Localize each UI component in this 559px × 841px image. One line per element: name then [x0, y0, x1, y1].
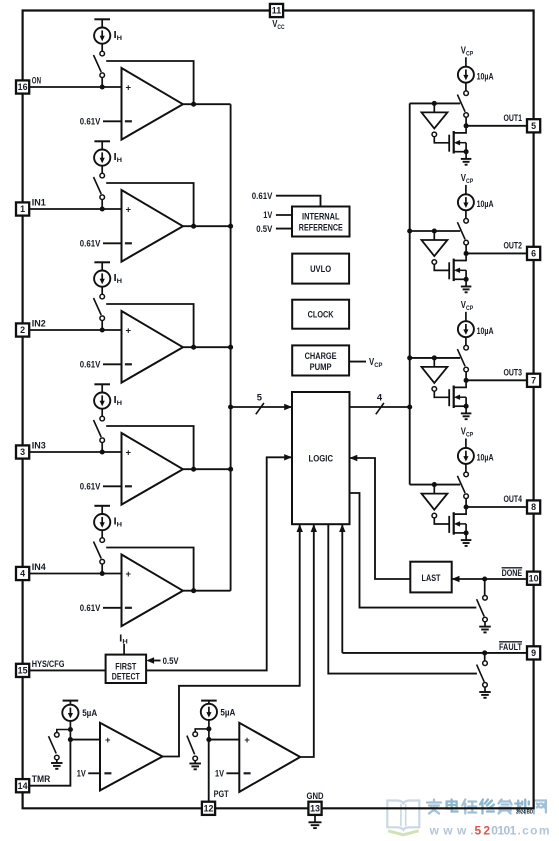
svg-text:14: 14: [18, 781, 28, 791]
ground symbol FAULT switch: [479, 691, 491, 693]
watermark logo book icon: [387, 801, 419, 830]
wire node to PGT comparator + input: [209, 739, 239, 741]
svg-text:OUT3: OUT3: [504, 368, 523, 378]
wire 1V to PGT - input: [226, 772, 239, 774]
svg-text:9: 9: [531, 648, 536, 658]
current source I_H for IN3: [94, 393, 110, 409]
svg-text:1V: 1V: [263, 210, 273, 220]
PGT reset switch: [193, 732, 198, 737]
MOSFET M7 bulk arrow: [456, 396, 467, 398]
svg-text:5µA: 5µA: [82, 708, 97, 718]
ground symbol DONE switch: [479, 626, 491, 628]
source junction dot OUT4: [464, 530, 469, 535]
svg-text:H: H: [117, 278, 122, 285]
hysteresis switch for IN3: [100, 416, 105, 421]
svg-text:6: 6: [531, 249, 536, 259]
svg-text:ON: ON: [32, 75, 41, 85]
junction dot control OUT3: [432, 355, 437, 360]
svg-text:2924 BD: 2924 BD: [516, 810, 533, 816]
comparator IN4 - input symbol: [125, 607, 132, 609]
inverter gate driver for OUT4: [422, 494, 448, 510]
wire 0.61V to - input for IN2: [103, 363, 122, 365]
wire FAULT switch to ground: [484, 687, 486, 692]
MOSFET M8 source stub: [454, 532, 466, 534]
FAULT switch control wire from LOGIC: [328, 524, 477, 673]
comparator IN4 output wire: [183, 590, 231, 592]
bus wire 5 from comparators into LOGIC: [231, 406, 292, 408]
MOSFET M6 drain stub: [454, 253, 466, 260]
watermark chinese characters: [427, 800, 546, 814]
bus junction dot IN3: [228, 467, 233, 472]
wire into inverter OUT4: [433, 485, 435, 494]
comparator ON - input symbol: [125, 120, 132, 122]
inverter output bubble OUT3: [432, 387, 437, 392]
bus junction dot at 5-line tap: [228, 404, 233, 409]
switch for OUT3 driver: [464, 345, 469, 350]
svg-text:+: +: [126, 82, 132, 93]
wire 0.61V to - input for IN3: [103, 485, 122, 487]
current source 10uA for OUT1: [458, 67, 474, 83]
svg-text:+: +: [126, 325, 132, 336]
wire source to node PGT: [208, 720, 210, 740]
feedback wire comparator output to switch for IN3: [106, 426, 193, 469]
block INTERNAL REFERENCE: [292, 207, 350, 237]
block LOGIC: [292, 392, 350, 524]
svg-text:7: 7: [531, 376, 536, 386]
svg-text:LAST: LAST: [422, 573, 441, 583]
svg-text:.com: .com: [518, 824, 550, 838]
bus wire 4 from LOGIC to output drivers: [350, 406, 410, 408]
switch for OUT4 driver: [464, 472, 469, 477]
bus junction dot IN2: [228, 345, 233, 350]
MOSFET M6 source stub: [454, 278, 466, 280]
svg-text:0.61V: 0.61V: [80, 482, 101, 492]
wire current source to switch OUT3: [465, 337, 467, 345]
svg-text:1V: 1V: [77, 769, 87, 779]
wire OUT2 node to pin: [466, 252, 527, 254]
comparator TMR - symbol: [104, 772, 111, 774]
comparator PGT - symbol: [244, 772, 251, 774]
feedback wire comparator output to switch for ON: [106, 61, 193, 104]
TMR reset switch: [55, 733, 60, 738]
pin 1 box: [16, 202, 29, 215]
control wire from logic bus to OUT4 inverter and switch: [410, 484, 461, 486]
svg-text:0.61V: 0.61V: [252, 191, 273, 201]
wire node to TMR comparator + input: [70, 739, 100, 741]
current source I_H for IN4 - supply bar: [94, 505, 110, 507]
control wire from logic bus to OUT3 inverter and switch: [410, 357, 461, 359]
wire IN4 pin to comparator + input: [29, 573, 121, 575]
wire inverter to MOSFET gate OUT2: [434, 264, 449, 270]
current source 5uA PGT: [201, 704, 217, 720]
svg-text:15: 15: [18, 666, 28, 676]
comparator IN3 output wire: [183, 468, 231, 470]
svg-text:0.61V: 0.61V: [80, 239, 101, 249]
svg-text:+: +: [126, 569, 132, 580]
bus dot OUT2 control: [407, 228, 412, 233]
junction dot control OUT1: [432, 101, 437, 106]
bus slash 5: [256, 403, 264, 414]
hysteresis switch for ON: [100, 51, 105, 56]
node dot ON input: [100, 84, 105, 89]
wire 0.5V arrow into FIRST DETECT: [150, 660, 161, 662]
node dot IN4 input: [100, 571, 105, 576]
node dot TMR + input: [68, 737, 73, 742]
control wire from logic bus to OUT1 inverter and switch: [410, 102, 461, 104]
source junction dot OUT3: [464, 404, 469, 409]
MOSFET M5 channel bar: [453, 131, 455, 154]
wire OUT1 node to pin: [466, 125, 527, 127]
source junction dot OUT1: [464, 149, 469, 154]
pin 15 box: [16, 664, 29, 677]
ground symbol OUT4: [461, 539, 472, 541]
inverter gate driver for OUT3: [422, 367, 448, 383]
svg-text:1V: 1V: [215, 769, 225, 779]
svg-text:H: H: [117, 400, 122, 407]
pin 7 box: [527, 374, 540, 387]
MOSFET M5 bulk arrow: [456, 142, 467, 144]
current source I_H for IN2 - supply bar: [94, 261, 110, 263]
current source 10uA for OUT3: [458, 321, 474, 337]
inverter output bubble OUT1: [432, 132, 437, 137]
pin 10 box: [527, 572, 540, 585]
comparator IN4 triangle: [122, 555, 183, 627]
svg-text:CP: CP: [466, 178, 474, 185]
wire into inverter OUT3: [433, 358, 435, 367]
wire switch to output node OUT1: [465, 117, 467, 126]
svg-text:INTERNAL: INTERNAL: [302, 212, 340, 222]
svg-text:+: +: [126, 447, 132, 458]
current source 5uA TMR: [62, 705, 78, 721]
wire current source to switch for IN2: [101, 287, 103, 295]
svg-text:REFERENCE: REFERENCE: [299, 223, 343, 233]
wire into inverter OUT2: [433, 231, 435, 240]
wire inverter to MOSFET gate OUT3: [434, 391, 449, 397]
wire current source to switch OUT4: [465, 464, 467, 472]
comparator IN2 output node dot: [191, 345, 196, 350]
wire LAST output to LOGIC: [350, 458, 411, 579]
svg-text:CP: CP: [466, 432, 474, 439]
MOSFET M6 bulk arrow: [456, 269, 467, 271]
current source I_H for ON: [94, 27, 110, 43]
feedback wire comparator output to switch for IN2: [106, 304, 193, 347]
node dot PGT upper: [206, 726, 211, 731]
svg-text:+: +: [244, 735, 250, 746]
svg-text:OUT1: OUT1: [504, 113, 523, 123]
MOSFET M8 bulk arrow: [456, 523, 467, 525]
svg-text:H: H: [117, 157, 122, 164]
wire 0.61V to - input for IN1: [103, 242, 122, 244]
current source I_H for ON - supply bar: [94, 18, 110, 20]
svg-text:0.61V: 0.61V: [80, 603, 101, 613]
wire 0.61V to - input for IN4: [103, 607, 122, 609]
wire I_H into FIRST DETECT top: [123, 644, 125, 655]
comparator IN1 output wire: [183, 225, 231, 227]
switch for OUT1 driver: [464, 91, 469, 96]
node dot PGT + input: [206, 737, 211, 742]
node dot TMR upper: [68, 727, 73, 732]
wire TMR switch to ground: [56, 760, 58, 763]
ground symbol OUT2: [461, 286, 472, 288]
control wire from logic bus to OUT2 inverter and switch: [410, 230, 461, 232]
DONE pulldown switch: [483, 596, 488, 601]
comparator TMR triangle: [100, 723, 163, 791]
wire VCP to current source OUT3: [465, 312, 467, 321]
node dot IN1 input: [100, 206, 105, 211]
block CHARGE PUMP: [292, 345, 349, 375]
comparator IN3 - input symbol: [125, 485, 132, 487]
pin 3 box: [16, 445, 29, 458]
wire FAULT to LOGIC bottom: [341, 524, 343, 653]
wire inverter to MOSFET gate OUT4: [434, 518, 449, 524]
pin 12 box: [202, 802, 215, 815]
svg-text:TMR: TMR: [32, 774, 51, 784]
bus dot OUT3 control: [407, 355, 412, 360]
comparator ON output wire: [183, 103, 231, 105]
wire VCP to current source OUT4: [465, 439, 467, 448]
wire DONE pin to LAST with arrow: [452, 578, 527, 580]
svg-text:0101: 0101: [491, 824, 516, 838]
TMR switch branch wire: [57, 730, 71, 733]
junction dot control OUT2: [432, 228, 437, 233]
block UVLO: [292, 254, 349, 284]
PGT switch branch wire: [195, 729, 209, 732]
wire IN3 pin to comparator + input: [29, 451, 121, 453]
comparator ON triangle: [122, 68, 183, 140]
wire source to ground OUT3: [465, 406, 467, 413]
comparator IN3 triangle: [122, 433, 183, 505]
hysteresis switch for IN2: [100, 294, 105, 299]
svg-text:10µA: 10µA: [477, 199, 494, 209]
svg-text:5µA: 5µA: [220, 707, 235, 717]
svg-text:CP: CP: [466, 50, 474, 57]
svg-text:CP: CP: [466, 305, 474, 312]
wire switch to input node for IN4: [101, 564, 103, 574]
svg-text:H: H: [122, 638, 127, 645]
svg-text:10µA: 10µA: [477, 453, 494, 463]
ground symbol TMR switch: [51, 762, 63, 764]
MOSFET M8 gate bar: [448, 516, 450, 533]
svg-text:OUT4: OUT4: [504, 494, 523, 504]
pin 6 box: [527, 247, 540, 260]
MOSFET M7 gate bar: [448, 389, 450, 406]
wire ON pin to comparator + input: [29, 86, 121, 88]
svg-text:HYS/CFG: HYS/CFG: [32, 659, 65, 669]
wire PGT switch to ground: [194, 761, 196, 764]
ground symbol OUT1: [461, 158, 472, 160]
svg-text:FAULT: FAULT: [499, 642, 522, 652]
bus junction dot IN1: [228, 224, 233, 229]
MOSFET M6 channel bar: [453, 259, 455, 282]
pin 2 box: [16, 323, 29, 336]
wire HYS/CFG pin to FIRST DETECT: [29, 669, 105, 671]
FAULT pulldown switch wire: [484, 653, 486, 661]
wire switch to input node for IN2: [101, 320, 103, 330]
wire charge pump VCP output: [349, 361, 366, 363]
svg-text:OUT2: OUT2: [504, 241, 523, 251]
current source I_H for IN3 - supply bar: [94, 383, 110, 385]
MOSFET M5 source stub: [454, 151, 466, 153]
MOSFET M8 drain stub: [454, 507, 466, 514]
inverter output bubble OUT4: [432, 513, 437, 518]
pin 13 box: [308, 802, 321, 815]
svg-text:16: 16: [18, 82, 28, 92]
svg-text:0.61V: 0.61V: [80, 117, 101, 127]
current source 10uA for OUT2: [458, 194, 474, 210]
MOSFET M7 source stub: [454, 405, 466, 407]
current source 5uA supply bar TMR: [63, 700, 79, 702]
wire current source to switch for IN1: [101, 166, 103, 174]
comparator PGT triangle: [239, 723, 300, 792]
wire switch to output node OUT2: [465, 245, 467, 254]
wire source to node TMR: [69, 721, 71, 740]
svg-text:52: 52: [475, 824, 491, 838]
svg-text:DONE: DONE: [502, 568, 522, 578]
wire FIRST DETECT output to LOGIC: [146, 457, 292, 670]
DONE switch control wire from LOGIC: [350, 493, 477, 608]
wire source to ground OUT2: [465, 279, 467, 286]
comparator IN2 output wire: [183, 346, 231, 348]
wire source to ground OUT1: [465, 152, 467, 159]
comparator IN1 output node dot: [191, 224, 196, 229]
wire OUT4 node to pin: [466, 506, 527, 508]
current source I_H for IN1 - supply bar: [94, 140, 110, 142]
svg-text:+: +: [126, 204, 132, 215]
comparator IN2 - input symbol: [125, 363, 132, 365]
bus slash 4: [376, 403, 384, 414]
wire switch to input node for IN1: [101, 199, 103, 209]
svg-text:CC: CC: [277, 24, 284, 31]
MOSFET M8 channel bar: [453, 512, 455, 535]
output node dot OUT4: [464, 504, 469, 509]
svg-text:0.5V: 0.5V: [256, 224, 273, 234]
junction dot control OUT4: [432, 482, 437, 487]
source junction dot OUT2: [464, 277, 469, 282]
current source 10uA for OUT4: [458, 448, 474, 464]
comparator IN1 triangle: [122, 190, 183, 262]
pin 4 box: [16, 567, 29, 580]
svg-text:CP: CP: [374, 362, 383, 369]
wire current source to switch for IN3: [101, 409, 103, 417]
svg-text:10µA: 10µA: [477, 326, 494, 336]
svg-text:UVLO: UVLO: [310, 264, 331, 274]
svg-text:4: 4: [377, 391, 383, 402]
svg-text:8: 8: [531, 502, 536, 512]
svg-text:5: 5: [531, 121, 536, 131]
pin 8 box: [527, 500, 540, 513]
hysteresis switch for IN1: [100, 173, 105, 178]
svg-text:DETECT: DETECT: [112, 671, 140, 681]
DONE pulldown switch wire: [484, 579, 486, 596]
junction dot FAULT: [482, 650, 487, 655]
logic control bus vertical wire to output drivers: [409, 103, 411, 484]
current source I_H for IN2: [94, 271, 110, 287]
MOSFET M7 channel bar: [453, 386, 455, 409]
wire 1V to TMR - input: [88, 772, 100, 774]
svg-text:0.61V: 0.61V: [80, 360, 101, 370]
output node dot OUT1: [464, 123, 469, 128]
svg-text:13: 13: [310, 804, 320, 814]
feedback wire comparator output to switch for IN1: [106, 183, 193, 226]
wire IN1 pin to comparator + input: [29, 208, 121, 210]
node dot IN3 input: [100, 449, 105, 454]
wire into inverter OUT1: [433, 103, 435, 112]
wire OUT3 node to pin: [466, 379, 527, 381]
wire PGT pin up to node: [208, 740, 210, 802]
MOSFET M6 gate bar: [448, 262, 450, 279]
comparator IN4 output node dot: [191, 588, 196, 593]
svg-text:CLOCK: CLOCK: [308, 310, 334, 320]
MOSFET M5 drain stub: [454, 126, 466, 133]
wire IN2 pin to comparator + input: [29, 329, 121, 331]
wire inverter to MOSFET gate OUT1: [434, 137, 449, 143]
svg-text:LOGIC: LOGIC: [309, 452, 334, 463]
switch for OUT2 driver: [464, 219, 469, 224]
wire DONE switch to ground: [484, 622, 486, 627]
output node dot OUT2: [464, 251, 469, 256]
ground symbol PGT switch: [189, 763, 201, 765]
svg-text:IN4: IN4: [32, 562, 47, 572]
inverter gate driver for OUT2: [422, 240, 448, 256]
current source I_H for IN1: [94, 150, 110, 166]
wire pin 13 to ground: [314, 815, 316, 822]
current source 5uA supply bar PGT: [201, 700, 217, 702]
svg-text:5: 5: [257, 392, 262, 403]
node dot IN2 input: [100, 327, 105, 332]
comparator IN1 - input symbol: [125, 242, 132, 244]
wire TMR pin up to node: [29, 740, 70, 786]
pin 14 box: [16, 779, 29, 792]
wire current source to switch OUT2: [465, 210, 467, 218]
pin 11 box: [270, 4, 283, 17]
wire PGT comparator output to LOGIC: [300, 524, 314, 757]
svg-text:IN1: IN1: [32, 197, 46, 207]
svg-text:+: +: [105, 735, 111, 746]
svg-text:H: H: [117, 522, 122, 529]
svg-text:12: 12: [204, 804, 214, 814]
svg-text:10: 10: [529, 573, 539, 583]
inverter output bubble OUT2: [432, 260, 437, 265]
svg-text:0.5V: 0.5V: [163, 656, 180, 666]
junction dot DONE: [482, 576, 487, 581]
wire FAULT pin line: [342, 652, 527, 654]
ground symbol OUT3: [461, 412, 472, 414]
svg-text:2: 2: [20, 325, 25, 335]
svg-text:PUMP: PUMP: [310, 362, 332, 372]
svg-text:4: 4: [20, 569, 25, 579]
svg-text:11: 11: [272, 6, 281, 16]
wire current source to switch OUT1: [465, 83, 467, 91]
comparator IN2 triangle: [122, 311, 183, 383]
wire current source to switch for ON: [101, 44, 103, 52]
svg-text:PGT: PGT: [214, 789, 229, 799]
svg-text:GND: GND: [307, 791, 324, 801]
block CLOCK: [292, 300, 349, 329]
wire TMR comparator output to LOGIC: [163, 524, 300, 756]
wire switch to input node for IN3: [101, 442, 103, 452]
svg-text:1: 1: [20, 204, 25, 214]
wire switch to input node for ON: [101, 77, 103, 87]
block LAST: [410, 562, 451, 593]
pin 9 box: [527, 646, 540, 659]
MOSFET M7 drain stub: [454, 380, 466, 387]
wire 0.61V to internal reference top: [276, 196, 321, 207]
current source I_H for IN4: [94, 514, 110, 530]
comparator output bus vertical wire: [230, 104, 232, 591]
FAULT pulldown switch: [483, 661, 488, 666]
junction dot 4-bus: [407, 404, 412, 409]
wire switch to output node OUT3: [465, 372, 467, 381]
